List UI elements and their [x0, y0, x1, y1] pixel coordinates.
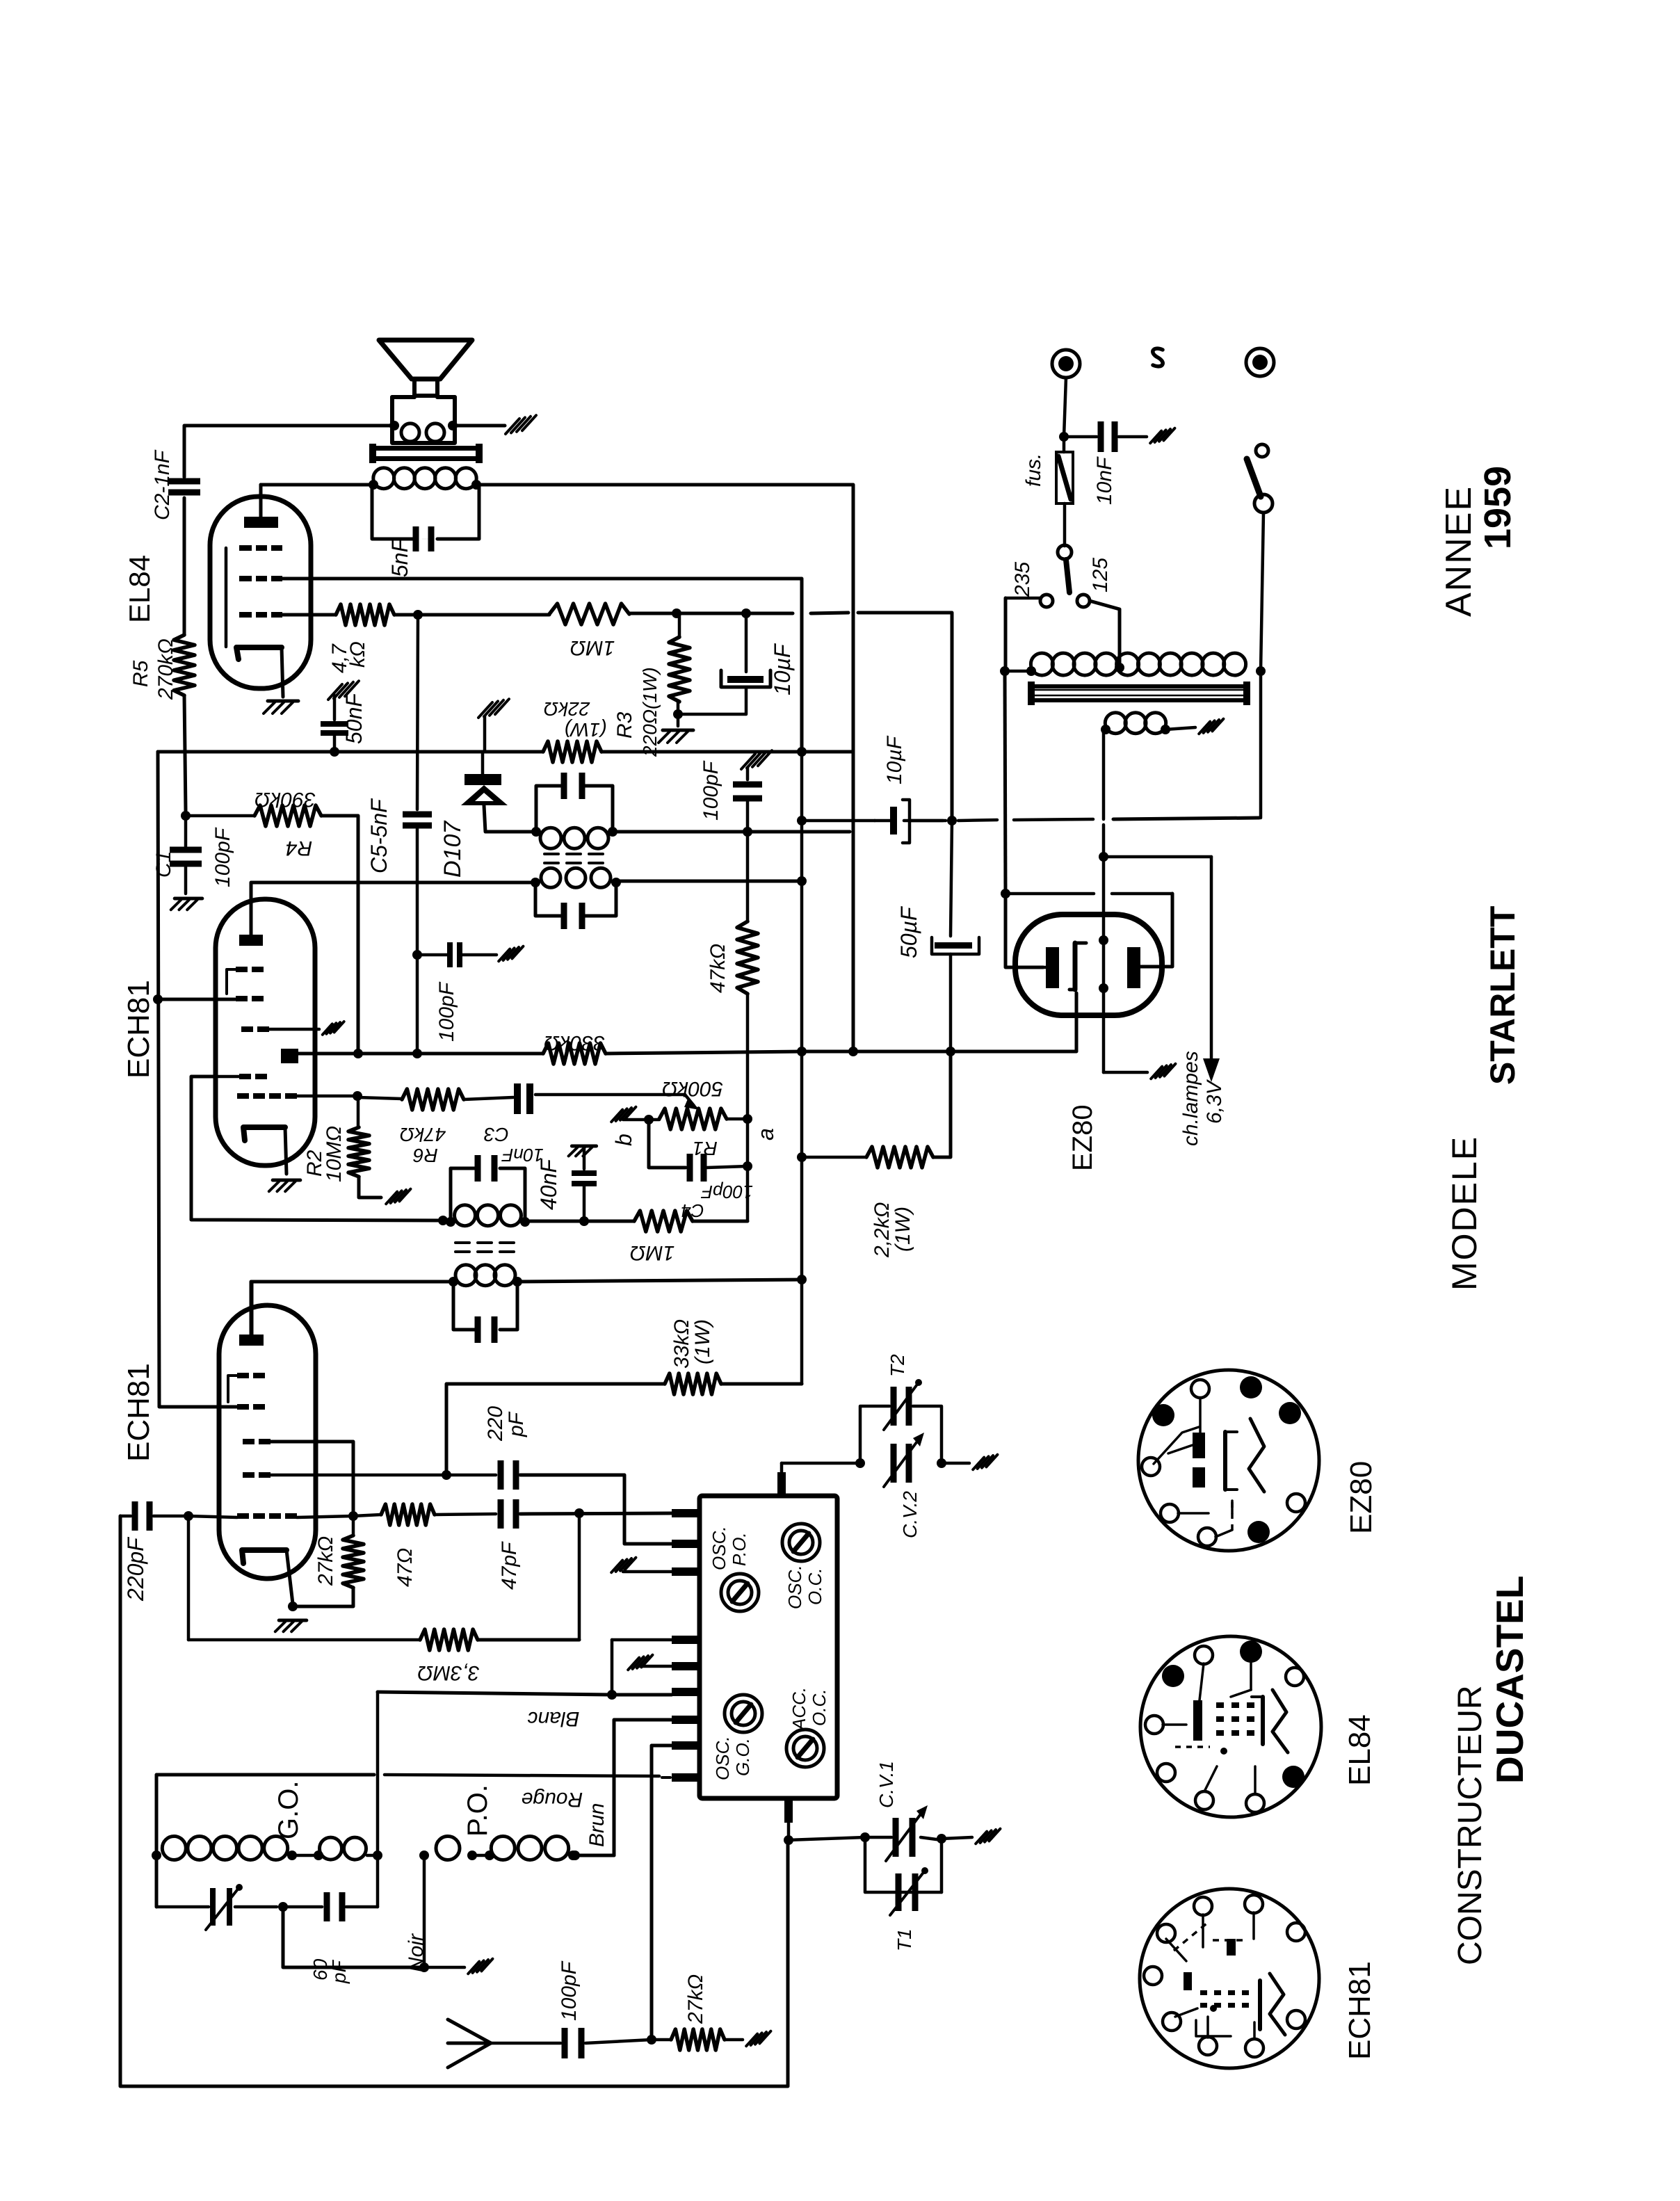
svg-text:1959: 1959: [1477, 466, 1519, 549]
tube V4 anode right: [1127, 947, 1140, 988]
wire IFT1 prim right: [613, 830, 748, 834]
tube V4 anode left: [1046, 947, 1059, 988]
svg-text:C2-1nF: C2-1nF: [151, 449, 174, 520]
ground R1 b: [611, 1110, 622, 1122]
wire R1 b to C4: [649, 1120, 686, 1168]
tube V2 cathode: [243, 1127, 285, 1140]
trimmer cap GO: [156, 1905, 209, 1909]
svg-text:C3: C3: [484, 1124, 509, 1145]
svg-text:pF: pF: [505, 1411, 528, 1437]
wire node to 50uF: [802, 1050, 951, 1054]
resistor R5 270k: [174, 635, 195, 695]
osc screw OSC GO: [725, 1695, 762, 1732]
left rail bus: [158, 752, 243, 1407]
tube V3 row3: [243, 1439, 255, 1444]
wire 47ohm row: [353, 1515, 381, 1516]
capacitor 47pF: [498, 1499, 504, 1529]
svg-text:100pF: 100pF: [700, 760, 722, 821]
transformer primary: [1000, 666, 1010, 676]
tube V3 row4: [243, 1472, 255, 1478]
wire IFT2 sec right: [517, 1280, 802, 1282]
svg-text:5nF: 5nF: [387, 537, 412, 577]
resistor 330k: [543, 1043, 606, 1064]
resistor R2 10M: [353, 1091, 362, 1101]
wire IFT1 sec to V2 anode: [252, 881, 535, 885]
tube V2 anode2: [281, 1049, 298, 1063]
svg-text:ECH81: ECH81: [122, 980, 156, 1079]
frame left bottom: [120, 1516, 788, 2086]
oscillator block case: [700, 1496, 837, 1798]
svg-text:G.O.: G.O.: [273, 1781, 304, 1839]
svg-text:220: 220: [484, 1406, 507, 1442]
svg-text:Rouge: Rouge: [522, 1788, 583, 1811]
wire blanc: [378, 1692, 672, 1695]
tube V2 ECH81 envelope: [216, 899, 315, 1166]
capacitor 100pF ant: [562, 2028, 568, 2058]
ground R3: [663, 729, 693, 732]
resistor R4 390k: [181, 811, 191, 821]
resistor R3 220ohm: [678, 613, 681, 637]
svg-text:(1W): (1W): [565, 719, 607, 741]
ground noir: [468, 1962, 479, 1974]
ground 10nF: [1150, 431, 1161, 444]
wire IFT2 sec left to V3 anode: [252, 1282, 453, 1335]
diode D107: [481, 752, 485, 776]
svg-text:STARLETT: STARLETT: [1483, 906, 1522, 1085]
wire C3 to wiper: [535, 1093, 685, 1097]
ground 27k ant: [746, 2034, 757, 2047]
capacitor 10nF: [1064, 435, 1097, 439]
svg-text:(1W): (1W): [891, 1207, 914, 1252]
tube V3 cathode: [242, 1550, 286, 1563]
resistor 22k in bus: [543, 741, 601, 762]
svg-text:10MΩ: 10MΩ: [323, 1126, 346, 1182]
svg-text:R4: R4: [286, 837, 312, 860]
transformer laminations: [1032, 684, 1247, 688]
resistor 4.7k: [336, 604, 394, 625]
svg-text:EZ80: EZ80: [1067, 1104, 1098, 1171]
fuse F1: [1056, 452, 1073, 503]
ground V2 row3: [323, 1024, 332, 1034]
wire T2 ground: [942, 1462, 969, 1465]
svg-text:ACC.: ACC.: [789, 1687, 809, 1732]
terminal P2: [1246, 348, 1274, 376]
tube V2 row2: [236, 996, 248, 1001]
svg-text:10nF: 10nF: [1093, 456, 1116, 505]
IFT2 secondary: [449, 1277, 458, 1287]
tube V2 rail to IFT2: [191, 1077, 443, 1220]
ground T2: [973, 1458, 984, 1470]
svg-text:270kΩ: 270kΩ: [154, 638, 177, 700]
tube V3 row1: [237, 1373, 249, 1378]
svg-text:C1: C1: [152, 851, 175, 878]
osc pin top: [777, 1472, 786, 1496]
wire cathode to 27k: [293, 1588, 353, 1606]
wire 3.3M row: [187, 1516, 191, 1640]
svg-text:C5-5nF: C5-5nF: [366, 798, 391, 873]
svg-text:OSC.: OSC.: [712, 1736, 733, 1780]
wire noir: [283, 1907, 424, 1967]
svg-text:kΩ: kΩ: [346, 641, 369, 668]
coil GO: [152, 1851, 161, 1860]
capacitor 10uF no1: [745, 613, 748, 672]
tube V2 row1: [236, 967, 248, 972]
bus B+ left segment: [158, 750, 543, 754]
wire ant riser: [652, 1746, 672, 2040]
tube V1 grid row3: [239, 612, 252, 618]
wire 4.7k to C5 node: [394, 613, 418, 617]
svg-text:100pF: 100pF: [435, 981, 458, 1042]
node column x1153: [801, 747, 802, 752]
tube V1 cathode: [236, 647, 282, 659]
resistor 27k ant: [671, 2029, 725, 2050]
tube V1 grid row1: [239, 545, 252, 551]
wire bus to V2 grid: [158, 998, 235, 1001]
svg-text:220pF: 220pF: [123, 1536, 148, 1602]
wire V1 g3 row: [282, 613, 336, 617]
ground above bus: [478, 702, 492, 718]
svg-text:50nF: 50nF: [341, 692, 366, 744]
wire OT to B+ raw: [476, 485, 853, 1049]
wire IFT1 sec right: [616, 880, 802, 883]
tube V2 row heater: [239, 1074, 251, 1079]
output transformer laminations: [372, 446, 480, 451]
ground V1 cathode: [268, 700, 298, 703]
antenna: [448, 2019, 491, 2067]
svg-text:D107: D107: [439, 821, 466, 878]
osc pins left: [672, 1509, 700, 1517]
tube V3 row bottom: [237, 1513, 249, 1519]
svg-text:6,3V: 6,3V: [1203, 1079, 1226, 1124]
contact 125: [1077, 595, 1090, 607]
wire R3 to 10uF: [677, 612, 746, 615]
speaker LS: [379, 340, 472, 379]
potentiometer R1: [644, 1115, 654, 1124]
wire rouge: [156, 1773, 374, 1777]
svg-text:OSC.: OSC.: [784, 1565, 805, 1609]
wire 3.3M right: [478, 1638, 579, 1642]
tube V3 anode top: [239, 1335, 264, 1346]
socket EZ80: [1138, 1370, 1319, 1551]
wire anode box: [1043, 966, 1046, 969]
wire anode column: [1005, 671, 1005, 894]
svg-text:DUCASTEL: DUCASTEL: [1488, 1576, 1531, 1784]
resistor 1M: [549, 604, 629, 624]
ground CV1: [976, 1832, 987, 1844]
svg-text:1MΩ: 1MΩ: [570, 636, 615, 659]
tube V1 grid row2: [239, 576, 252, 581]
variable capacitor CV2: [891, 1444, 897, 1483]
wire CV1 to ground: [942, 1837, 972, 1839]
wire speaker to C2: [184, 426, 394, 477]
trimmer CV1 box: [865, 1837, 942, 1892]
wire speaker to ground: [453, 424, 505, 428]
wire 33k row: [721, 1382, 802, 1386]
svg-text:MODELE: MODELE: [1445, 1136, 1484, 1291]
svg-text:R6: R6: [413, 1145, 438, 1166]
tube V1 anode: [244, 517, 278, 528]
wire anode2 row: [298, 1052, 358, 1056]
svg-text:T2: T2: [887, 1354, 908, 1377]
osc ground stub2: [628, 1658, 639, 1670]
tube V1 EL84 envelope: [210, 497, 311, 688]
svg-text:22kΩ: 22kΩ: [544, 698, 590, 720]
tube V2 row3: [241, 1026, 253, 1032]
wire osc to T2: [781, 1462, 782, 1464]
svg-text:125: 125: [1089, 558, 1112, 592]
svg-text:100pF: 100pF: [700, 1182, 753, 1202]
svg-text:P.O.: P.O.: [729, 1532, 750, 1566]
svg-text:EZ80: EZ80: [1344, 1461, 1378, 1534]
svg-text:Blanc: Blanc: [527, 1707, 579, 1730]
resistor 27k osc: [343, 1535, 364, 1588]
wire osc to CV1: [789, 1837, 865, 1840]
IFT1 primary: [531, 827, 541, 837]
capacitor C3: [464, 1097, 513, 1099]
wire R5 to R4 node: [184, 695, 186, 811]
capacitor 60pF: [283, 1905, 322, 1909]
socket ECH81: [1140, 1889, 1319, 2068]
svg-text:500kΩ: 500kΩ: [662, 1077, 723, 1100]
osc screw ACC OC: [786, 1730, 824, 1767]
variable capacitor CV1: [893, 1818, 899, 1857]
svg-text:O.C.: O.C.: [809, 1689, 830, 1726]
resistor 2.2k: [797, 1152, 807, 1162]
ground R2: [386, 1192, 397, 1204]
coil GO box: [156, 1775, 374, 1907]
IFT2 core dashes: [455, 1241, 469, 1244]
svg-text:100pF: 100pF: [558, 1960, 581, 2021]
svg-text:P.O.: P.O.: [462, 1784, 493, 1837]
switch S2 right: [1256, 444, 1268, 457]
resistor 1M det: [634, 1211, 693, 1232]
wire rect B line: [1259, 671, 1263, 818]
osc pin bottom: [784, 1798, 793, 1823]
svg-text:(1W): (1W): [691, 1319, 714, 1364]
wire 1M to R3: [629, 612, 677, 615]
wire 47k column: [743, 827, 752, 837]
tube V3 ECH81 envelope: [219, 1305, 316, 1579]
wire P1 to fuse: [1064, 378, 1066, 437]
ground speaker: [506, 419, 519, 434]
trimmer T1: [896, 1873, 902, 1911]
resistor R6 47k: [358, 1097, 402, 1099]
capacitor C4: [687, 1154, 693, 1182]
resistor 47ohm: [381, 1504, 435, 1525]
svg-text:R3: R3: [613, 711, 636, 739]
svg-text:a: a: [753, 1128, 778, 1140]
svg-text:OSC.: OSC.: [709, 1526, 729, 1570]
capacitor 10uF no2: [890, 807, 897, 835]
svg-text:O.C.: O.C.: [805, 1568, 825, 1605]
svg-text:10µF: 10µF: [883, 735, 906, 784]
svg-text:33kΩ: 33kΩ: [670, 1319, 693, 1369]
svg-text:ANNEE: ANNEE: [1439, 485, 1479, 617]
wire 220pF row: [188, 1516, 237, 1517]
capacitor C5 5nF: [417, 615, 418, 809]
svg-text:C.V.2: C.V.2: [899, 1491, 921, 1538]
svg-text:47Ω: 47Ω: [394, 1548, 417, 1587]
tube V3 row2: [237, 1404, 249, 1410]
ground transformer secondary: [1199, 722, 1210, 734]
wire 47pF to pin: [520, 1513, 672, 1514]
capacitor 220pF grid: [120, 1515, 131, 1518]
IFT1 core dashes: [544, 853, 558, 855]
svg-text:2,2kΩ: 2,2kΩ: [871, 1202, 894, 1258]
terminal P1: [1052, 350, 1080, 378]
contact 235: [1040, 595, 1053, 607]
wire 33k left: [446, 1384, 665, 1475]
wire IFT2 prim right: [525, 1220, 584, 1223]
wire 47ohm to 47pF: [435, 1514, 496, 1515]
svg-text:235: 235: [1011, 562, 1034, 597]
wire V1 screen: [282, 579, 802, 747]
label tilde: [1153, 348, 1163, 366]
tube V2 anode top: [239, 935, 263, 946]
osc ground stub1: [611, 1561, 622, 1573]
tube V4 EZ80 envelope: [1015, 914, 1162, 1015]
trimmer T2: [891, 1387, 897, 1426]
transformer secondary: [1105, 713, 1126, 734]
tube V4 heater line: [1102, 729, 1106, 819]
svg-text:ch.lampes: ch.lampes: [1179, 1051, 1202, 1146]
ground C1: [175, 897, 202, 901]
resistor 33k: [665, 1373, 721, 1394]
capacitor C2 1nF: [168, 478, 200, 485]
tube V1 grid rail: [225, 548, 228, 647]
wire 330k to node: [606, 1051, 802, 1054]
wire 3.3M riser: [578, 1513, 581, 1640]
svg-text:47kΩ: 47kΩ: [400, 1124, 446, 1145]
osc screw OSC OC: [782, 1524, 820, 1561]
svg-text:pF: pF: [328, 1959, 350, 1984]
svg-text:T1: T1: [894, 1928, 915, 1951]
wire 50uF to EZ80 cathode: [951, 993, 1076, 1051]
svg-text:100pF: 100pF: [211, 827, 234, 887]
svg-text:R5: R5: [129, 660, 152, 687]
wire ch lampes: [1104, 855, 1211, 859]
svg-text:27kΩ: 27kΩ: [314, 1536, 337, 1586]
ground V2 cathode: [273, 1179, 300, 1182]
svg-text:EL84: EL84: [123, 555, 156, 623]
IFT1 secondary: [531, 878, 540, 887]
wire 10uF to 50uF riser: [746, 612, 793, 615]
svg-text:50µF: 50µF: [896, 905, 921, 958]
svg-text:b: b: [611, 1134, 636, 1146]
svg-text:220Ω(1W): 220Ω(1W): [639, 667, 661, 757]
svg-text:27kΩ: 27kΩ: [684, 1974, 707, 2024]
switch S1 blade: [1058, 545, 1072, 559]
svg-text:C.V.1: C.V.1: [875, 1761, 897, 1808]
svg-text:ECH81: ECH81: [122, 1363, 156, 1462]
svg-text:330kΩ: 330kΩ: [544, 1031, 605, 1054]
wire V1 anode to OT: [261, 483, 372, 487]
wire brun: [573, 1854, 614, 1857]
svg-text:47kΩ: 47kΩ: [706, 944, 729, 993]
svg-text:G.O.: G.O.: [732, 1738, 753, 1776]
svg-text:47pF: 47pF: [498, 1541, 521, 1590]
wire 40nF row: [525, 1220, 634, 1223]
wire 1M det to a: [693, 1220, 748, 1223]
bus B+ right segment: [601, 750, 853, 754]
svg-text:390kΩ: 390kΩ: [255, 788, 316, 811]
socket EL84: [1140, 1636, 1321, 1817]
svg-text:fus.: fus.: [1022, 453, 1045, 487]
wire heater ground: [1104, 1071, 1147, 1074]
svg-text:ECH81: ECH81: [1343, 1961, 1377, 2060]
tube V2 row bottom: [237, 1093, 249, 1099]
svg-text:CONSTRUCTEUR: CONSTRUCTEUR: [1452, 1685, 1489, 1965]
svg-text:40nF: 40nF: [536, 1158, 561, 1210]
IFT2 primary: [446, 1217, 455, 1227]
capacitor 40nF: [572, 1145, 596, 1148]
capacitor 50uF: [947, 816, 957, 825]
tube V4 cathode: [1073, 943, 1078, 990]
ground V3 cathode: [279, 1619, 307, 1622]
wire 220pF2 to pinB: [446, 1474, 496, 1477]
ground heater: [1151, 1067, 1162, 1079]
resistor 3.3M: [420, 1629, 478, 1650]
svg-text:1MΩ: 1MΩ: [630, 1241, 675, 1264]
wire to 1M: [418, 613, 549, 617]
svg-text:10µF: 10µF: [770, 643, 795, 695]
output transformer primary coil: [373, 468, 394, 489]
capacitor 100pF agc: [741, 754, 755, 769]
capacitor 100pF det: [417, 953, 448, 957]
capacitor 5nF box: [372, 485, 413, 539]
ground 100pF det: [499, 949, 510, 962]
capacitor 50nF: [328, 684, 342, 700]
osc screw OSC PO: [721, 1574, 759, 1611]
coil PO: [419, 1851, 429, 1860]
svg-text:Brun: Brun: [585, 1803, 608, 1847]
svg-text:EL84: EL84: [1343, 1714, 1377, 1786]
svg-text:3,3MΩ: 3,3MΩ: [417, 1661, 480, 1684]
trimmer T2 box: [860, 1406, 889, 1463]
capacitor C1: [184, 816, 188, 846]
